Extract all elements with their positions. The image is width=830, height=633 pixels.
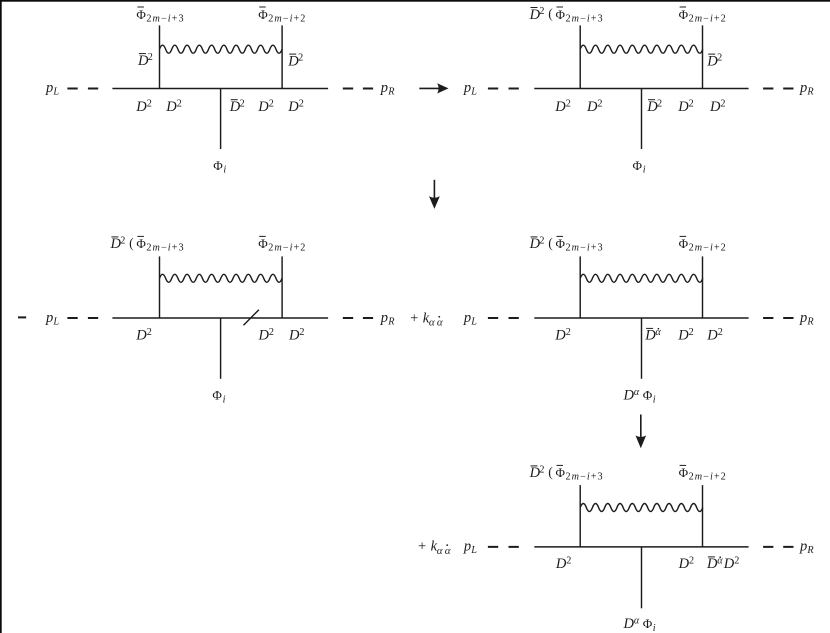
implication arrow pointing down (diagram 4 to diagram 5)	[636, 415, 647, 449]
svg-text:2: 2	[148, 52, 153, 63]
svg-text:Φ: Φ	[136, 7, 146, 22]
svg-text:L: L	[470, 545, 477, 556]
diagram 2: vector superfield wavy propagator	[580, 45, 703, 53]
svg-text:p: p	[45, 310, 53, 326]
svg-text:i: i	[653, 623, 656, 633]
svg-text:2: 2	[539, 6, 544, 17]
diagram 3: main chiral propagator line	[112, 317, 328, 319]
svg-text:R: R	[387, 316, 395, 327]
svg-text:2: 2	[689, 556, 694, 567]
diagram 5: top-right label Phibar_2m-i+2	[679, 465, 727, 483]
diagram 5: vector superfield wavy propagator	[580, 504, 703, 512]
diagram 5: external field label D^alpha Phi_i	[623, 616, 656, 633]
svg-text:R: R	[806, 545, 814, 556]
svg-text:p: p	[45, 80, 53, 96]
svg-text:L: L	[52, 87, 59, 98]
svg-text:2: 2	[298, 53, 303, 64]
diagram 5: external dashed line left	[488, 546, 519, 548]
leading minus sign of diagram 3	[18, 316, 26, 318]
svg-text:2m−i+3: 2m−i+3	[146, 243, 184, 254]
svg-text:L: L	[470, 87, 477, 98]
svg-text:2: 2	[566, 98, 571, 109]
svg-text:Φ: Φ	[679, 7, 689, 22]
svg-text:2: 2	[689, 98, 694, 109]
svg-text:Φ: Φ	[556, 465, 566, 480]
svg-text:Φ: Φ	[213, 158, 223, 173]
svg-text:Φ: Φ	[556, 236, 566, 251]
svg-text:p: p	[463, 80, 471, 96]
svg-text:D: D	[288, 328, 300, 344]
svg-text:2: 2	[269, 98, 274, 109]
svg-text:p: p	[463, 539, 471, 555]
svg-text:2: 2	[597, 98, 602, 109]
svg-text:L: L	[470, 316, 477, 327]
diagram 2: vertex label Dbar^2	[646, 98, 662, 115]
diagram 5: main chiral propagator line	[534, 546, 748, 548]
diagram 5: vertex label D^2	[678, 556, 694, 573]
diagram 1: vertex label D^2	[287, 98, 303, 115]
svg-text:+: +	[410, 310, 418, 326]
svg-text:(: (	[548, 464, 553, 479]
diagram 4: right external antichiral leg (vertical)	[702, 256, 704, 318]
svg-text:Φ: Φ	[556, 7, 566, 22]
diagram 2: main chiral propagator line	[534, 88, 748, 90]
diagram 5: vertex label Dbar^alphadot D^2	[706, 556, 739, 573]
svg-text:2: 2	[566, 556, 571, 567]
diagram 3: lower external leg to Phi_i (vertical)	[220, 318, 222, 379]
diagram 2: right external antichiral leg (vertical)	[702, 25, 704, 88]
svg-text:2m−i+2: 2m−i+2	[689, 472, 727, 483]
svg-text:D: D	[706, 556, 718, 572]
diagram 4: vector superfield wavy propagator	[580, 274, 703, 282]
svg-text:D: D	[135, 99, 147, 115]
diagram 1: vertex label Dbar^2	[229, 98, 245, 115]
svg-text:D: D	[586, 99, 598, 115]
svg-text:D: D	[623, 616, 635, 632]
svg-text:D: D	[555, 556, 567, 572]
diagram 2: vertex label D^2	[677, 98, 693, 115]
svg-text:R: R	[387, 87, 395, 98]
diagram 1: label Dbar^2 on left leg	[137, 52, 153, 69]
svg-text:2: 2	[147, 327, 152, 338]
diagram 5: lower external leg to Phi_i (vertical)	[641, 547, 643, 608]
svg-text:(: (	[548, 6, 553, 21]
svg-text:2: 2	[240, 98, 245, 109]
diagram 4: external dashed line right	[763, 317, 793, 319]
diagram 5: left external antichiral leg (vertical)	[579, 485, 581, 547]
diagram 1: external field label Phi_i	[213, 158, 226, 176]
svg-text:2: 2	[120, 236, 125, 247]
svg-text:D: D	[709, 99, 721, 115]
diagram 2: top-left label Dbar^2 ( Phibar_2m-i+3	[529, 6, 604, 24]
svg-text:p: p	[799, 80, 807, 96]
diagram 2: top-right label Phibar_2m-i+2	[679, 7, 727, 25]
diagram 3: top-right label Phibar_2m-i+2	[258, 236, 306, 254]
diagram 1: right external antichiral leg (vertical)	[281, 25, 283, 88]
svg-text:2: 2	[689, 327, 694, 338]
svg-text:2m−i+3: 2m−i+3	[566, 13, 604, 24]
svg-text:2: 2	[720, 98, 725, 109]
svg-text:2m−i+2: 2m−i+2	[268, 243, 306, 254]
svg-text:2: 2	[539, 236, 544, 247]
svg-text:p: p	[380, 310, 388, 326]
svg-text:D: D	[258, 328, 270, 344]
svg-text:D: D	[677, 99, 689, 115]
diagram 2: outgoing momentum label p_R	[799, 80, 814, 98]
svg-text:2: 2	[299, 327, 304, 338]
svg-text:D: D	[678, 556, 690, 572]
svg-text:2: 2	[734, 556, 739, 567]
svg-text:2m−i+3: 2m−i+3	[146, 13, 184, 24]
svg-text:Φ: Φ	[643, 388, 653, 403]
diagram 4: vertex label Dbar^alphadot	[644, 327, 661, 344]
svg-text:Φ: Φ	[679, 236, 689, 251]
diagram 4: top-left label Dbar^2 ( Phibar_2m-i+3	[529, 235, 604, 253]
diagram 1: outgoing momentum label p_R	[380, 80, 395, 98]
diagram 2: lower external leg to Phi_i (vertical)	[641, 89, 643, 150]
diagram 2: external dashed line right	[763, 88, 793, 90]
diagram 5: outgoing momentum label p_R	[799, 539, 814, 557]
diagram 4: main chiral propagator line	[534, 317, 748, 319]
diagram 5: top-left label Dbar^2 ( Phibar_2m-i+3	[529, 464, 604, 482]
diagram 1: external dashed line left	[67, 88, 98, 90]
svg-text:D: D	[623, 388, 635, 404]
svg-text:+: +	[418, 539, 426, 555]
diagram 3: external dashed line left	[67, 317, 98, 319]
diagram 4: vertex label D^2	[554, 327, 570, 344]
svg-text:D: D	[554, 328, 566, 344]
diagram 5: vertex label D^2	[555, 556, 571, 573]
diagram 4: top-right label Phibar_2m-i+2	[679, 236, 727, 254]
diagram 1: vertex label D^2	[165, 98, 181, 115]
svg-text:α: α	[634, 387, 640, 398]
svg-text:Φ: Φ	[258, 7, 268, 22]
svg-text:Φ: Φ	[258, 236, 268, 251]
svg-text:(: (	[548, 235, 553, 250]
diagram 3: left external antichiral leg (vertical)	[159, 256, 161, 318]
svg-text:L: L	[52, 316, 59, 327]
diagram 3: incoming momentum label p_L	[45, 310, 59, 328]
diagram 1: left external antichiral leg (vertical)	[159, 25, 161, 88]
svg-text:D: D	[287, 99, 299, 115]
svg-text:2: 2	[717, 53, 722, 64]
svg-text:i: i	[653, 394, 656, 405]
diagram 1: external dashed line right	[343, 88, 373, 90]
svg-text:D: D	[257, 99, 269, 115]
diagram 2: incoming momentum label p_L	[463, 80, 477, 98]
diagram 1: top-right label Phibar_2m-i+2	[258, 7, 306, 25]
svg-text:p: p	[380, 80, 388, 96]
svg-text:2: 2	[147, 98, 152, 109]
diagram 4: incoming momentum label p_L	[463, 310, 477, 328]
figure frame: top border	[0, 0, 830, 2]
implication arrow pointing down (row 1 to row 2)	[429, 180, 440, 209]
svg-text:R: R	[806, 316, 814, 327]
diagram 2: vertex label D^2	[709, 98, 725, 115]
diagram 2: external field label Phi_i	[633, 158, 646, 176]
svg-text:p: p	[799, 539, 807, 555]
diagram 1: vertex label D^2	[257, 98, 273, 115]
svg-text:D: D	[165, 99, 177, 115]
svg-text:2: 2	[566, 327, 571, 338]
svg-text:R: R	[806, 87, 814, 98]
svg-text:2m−i+2: 2m−i+2	[689, 13, 727, 24]
diagram 3: vertex label D^2	[135, 327, 151, 344]
trailing label + k_alpha-alphadot of diagram 3	[410, 310, 445, 328]
svg-text:D: D	[644, 328, 656, 344]
diagram 2: vertex label D^2	[586, 98, 602, 115]
diagram 1: main chiral propagator line	[112, 88, 328, 90]
implication arrow pointing right	[419, 83, 448, 93]
svg-text:α: α	[634, 616, 640, 627]
diagram 2: label Dbar^2 on right leg	[706, 53, 722, 70]
svg-text:2: 2	[539, 465, 544, 476]
diagram 3: outgoing momentum label p_R	[380, 310, 395, 328]
svg-text:(: (	[129, 235, 134, 250]
diagram 1: incoming momentum label p_L	[45, 80, 59, 98]
diagram 3: right external antichiral leg (vertical)	[281, 256, 283, 318]
diagram 1: vertex label D^2	[135, 98, 151, 115]
svg-text:Φ: Φ	[643, 616, 653, 631]
diagram 3: top-left label Dbar^2 ( Phibar_2m-i+3	[110, 235, 185, 253]
diagram 2: vertex label D^2	[554, 98, 570, 115]
svg-text:p: p	[799, 310, 807, 326]
svg-text:Φ: Φ	[633, 158, 643, 173]
svg-text:2m−i+2: 2m−i+2	[689, 243, 727, 254]
svg-text:αα: αα	[437, 545, 453, 557]
diagram 3: external dashed line right	[343, 317, 373, 319]
svg-text:i: i	[223, 165, 226, 176]
diagram 2: external dashed line left	[488, 88, 519, 90]
svg-text:Φ: Φ	[136, 236, 146, 251]
diagram 1: lower external leg to Phi_i (vertical)	[220, 89, 222, 150]
diagram 5: external dashed line right	[763, 546, 793, 548]
svg-text:2: 2	[299, 98, 304, 109]
diagram 2: left external antichiral leg (vertical)	[579, 25, 581, 88]
diagram 1: label Dbar^2 on right leg	[287, 53, 303, 70]
svg-text:αα: αα	[429, 317, 445, 329]
diagram 3: external field label Phi_i	[212, 388, 225, 406]
svg-text:Φ: Φ	[679, 465, 689, 480]
svg-text:p: p	[463, 310, 471, 326]
svg-text:2: 2	[177, 98, 182, 109]
diagram 4: vertex label D^2	[677, 327, 693, 344]
svg-text:i: i	[223, 394, 226, 405]
diagram 4: left external antichiral leg (vertical)	[579, 256, 581, 318]
diagram 4: external dashed line left	[488, 317, 519, 319]
svg-text:D: D	[706, 328, 718, 344]
diagram 1: vector superfield wavy propagator	[160, 45, 283, 53]
diagram 4: vertex label D^2	[706, 327, 722, 344]
svg-text:2: 2	[657, 98, 662, 109]
svg-text:D: D	[554, 99, 566, 115]
figure frame: left border	[0, 0, 2, 633]
diagram 5: right external antichiral leg (vertical)	[702, 485, 704, 547]
svg-text:D: D	[723, 556, 735, 572]
diagram 3: momentum slash on main line	[244, 310, 259, 326]
diagram 4: external field label D^alpha Phi_i	[623, 387, 656, 406]
svg-text:i: i	[643, 165, 646, 176]
diagram 1: top-left label Phibar_2m-i+3	[136, 7, 184, 25]
diagram 5: incoming momentum label p_L	[463, 539, 477, 557]
svg-text:Φ: Φ	[212, 388, 222, 403]
diagram 3: vector superfield wavy propagator	[160, 274, 283, 282]
svg-text:2m−i+3: 2m−i+3	[566, 243, 604, 254]
diagram 4: outgoing momentum label p_R	[799, 310, 814, 328]
diagram 3: vertex label D^2	[288, 327, 304, 344]
svg-text:D: D	[677, 328, 689, 344]
svg-text:2: 2	[269, 327, 274, 338]
diagram 3: vertex label D^2	[258, 327, 274, 344]
diagram 4: lower external leg to Phi_i (vertical)	[641, 318, 643, 379]
leading label + k_alpha-alphadot of diagram 5	[418, 539, 453, 557]
svg-text:2m−i+2: 2m−i+2	[268, 13, 306, 24]
svg-text:2: 2	[718, 327, 723, 338]
svg-text:2m−i+3: 2m−i+3	[566, 472, 604, 483]
svg-text:D: D	[135, 328, 147, 344]
